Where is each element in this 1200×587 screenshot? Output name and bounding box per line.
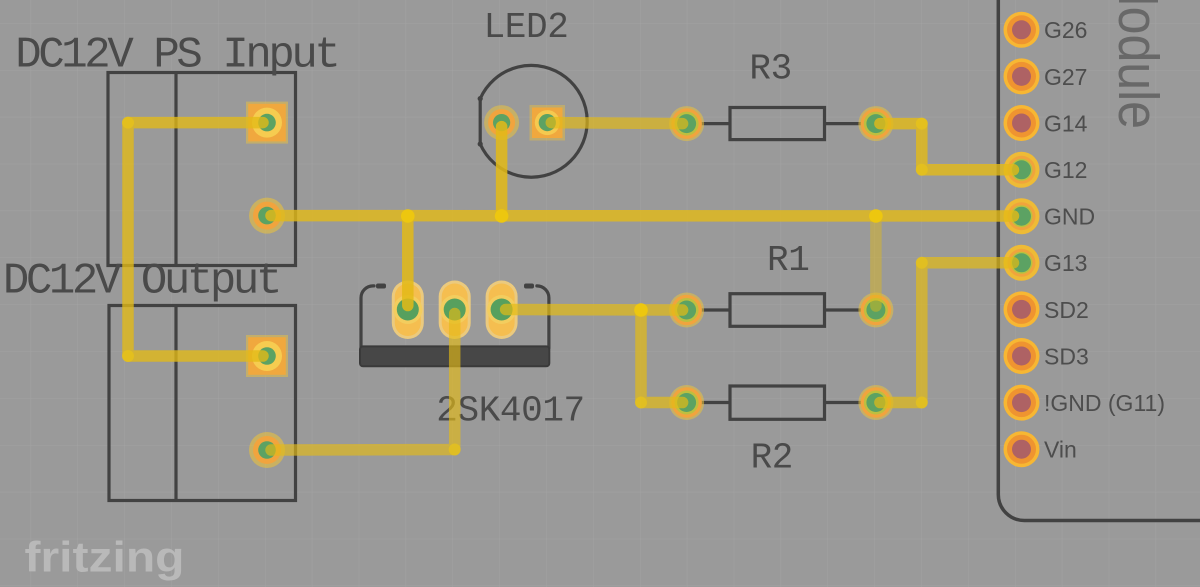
svg-text:DC12V Output: DC12V Output [3, 257, 279, 307]
svg-text:R3: R3 [749, 48, 791, 89]
svg-text:LED2: LED2 [484, 7, 569, 48]
svg-text:SD3: SD3 [1044, 343, 1089, 369]
svg-text:G12: G12 [1044, 157, 1087, 183]
svg-text:DC12V PS Input: DC12V PS Input [15, 31, 337, 81]
svg-text:G27: G27 [1044, 64, 1087, 90]
svg-text:G14: G14 [1044, 110, 1088, 136]
svg-text:G13: G13 [1044, 250, 1087, 276]
svg-text:R2: R2 [751, 438, 793, 479]
svg-text:Vin: Vin [1044, 437, 1077, 463]
svg-text:!GND (G11): !GND (G11) [1044, 390, 1165, 416]
svg-text:R1: R1 [767, 240, 809, 281]
svg-text:G26: G26 [1044, 17, 1087, 43]
svg-text:GND: GND [1044, 204, 1095, 230]
svg-text:fritzing: fritzing [25, 534, 185, 582]
svg-text:SD2: SD2 [1044, 297, 1089, 323]
svg-text:Module: Module [1106, 0, 1170, 129]
